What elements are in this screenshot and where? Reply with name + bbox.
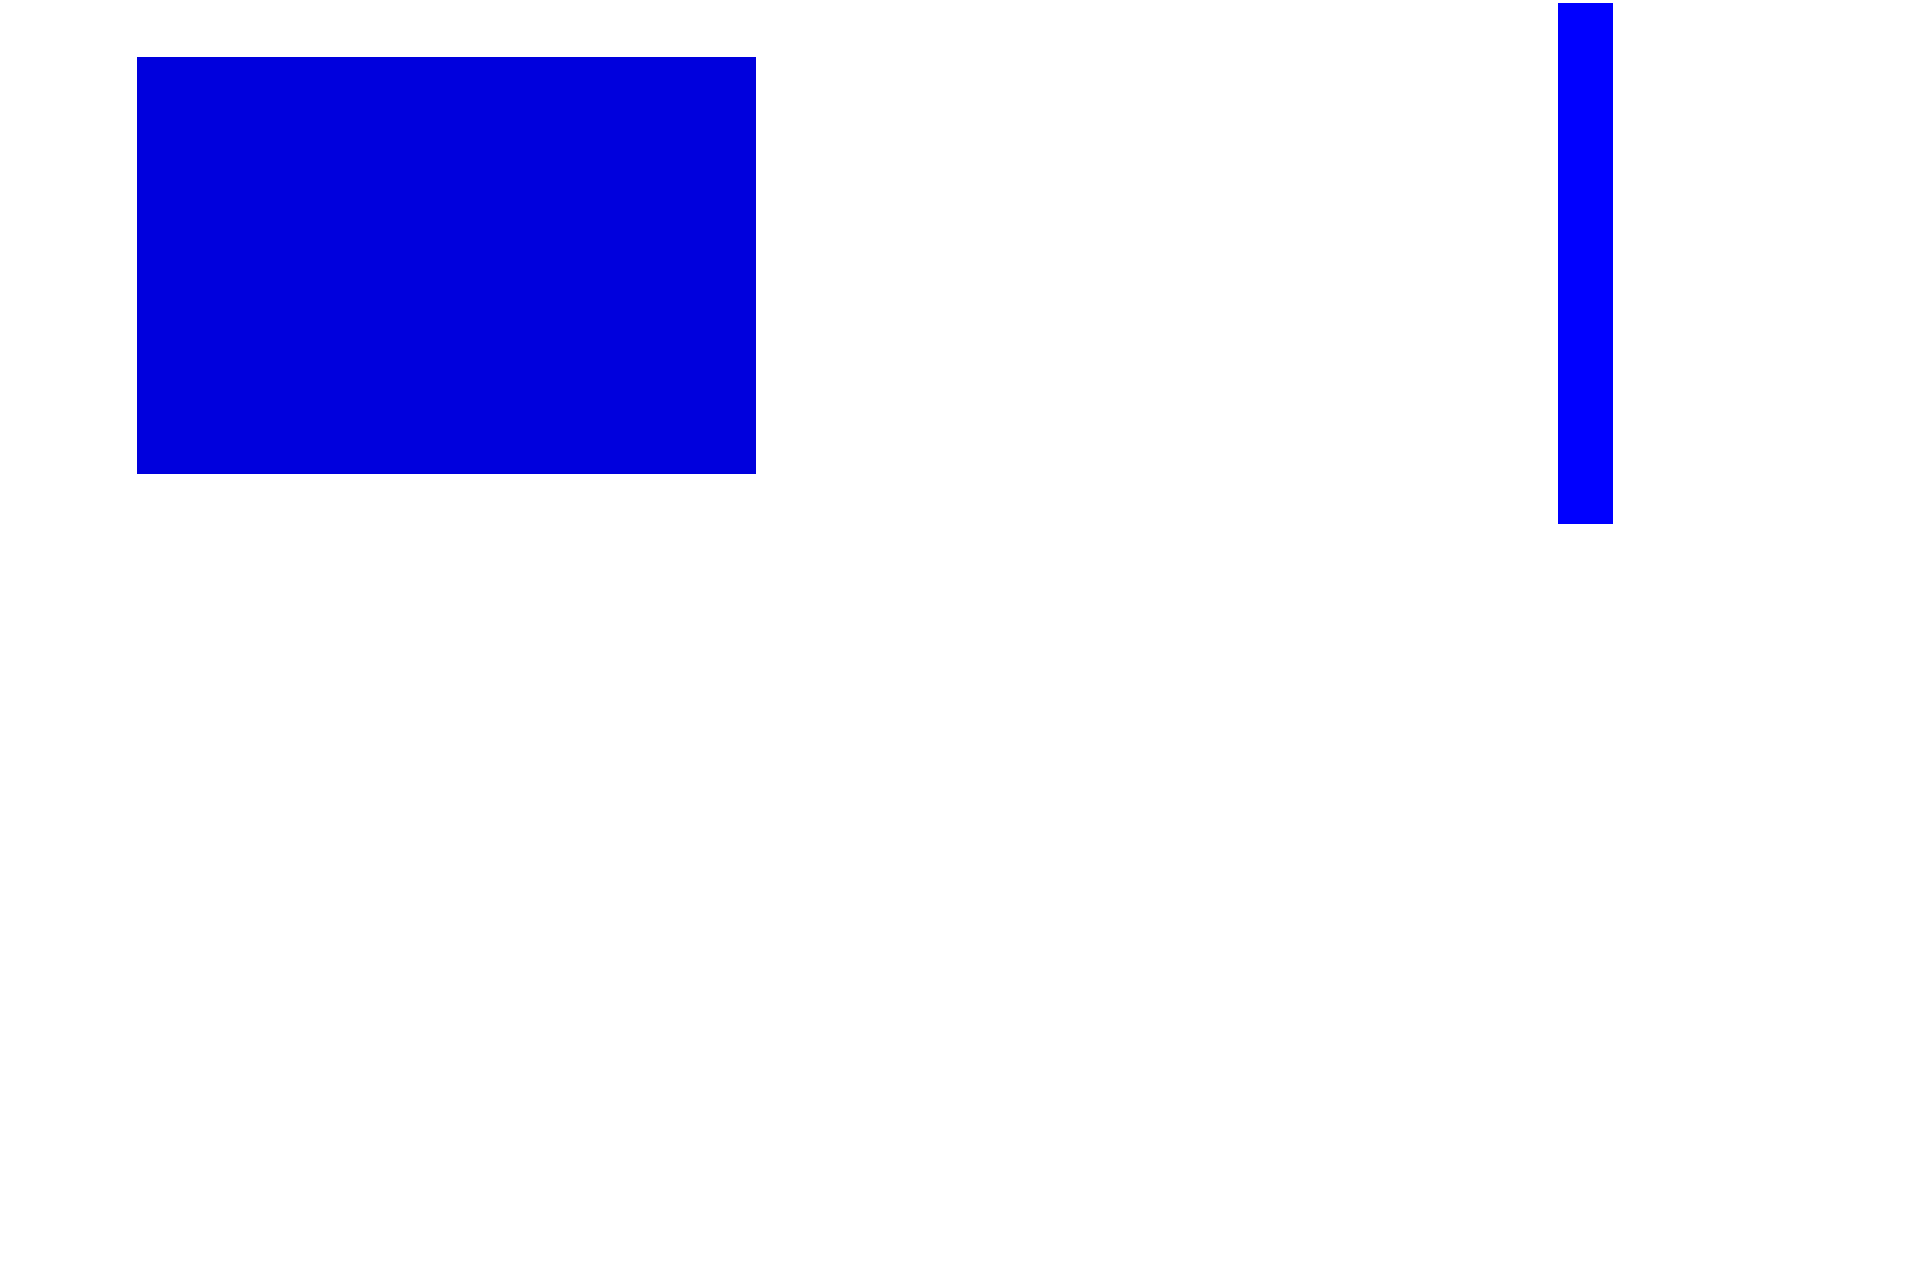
- blue rectangle: [137, 57, 756, 474]
- blue vertical bar: [1558, 3, 1613, 524]
